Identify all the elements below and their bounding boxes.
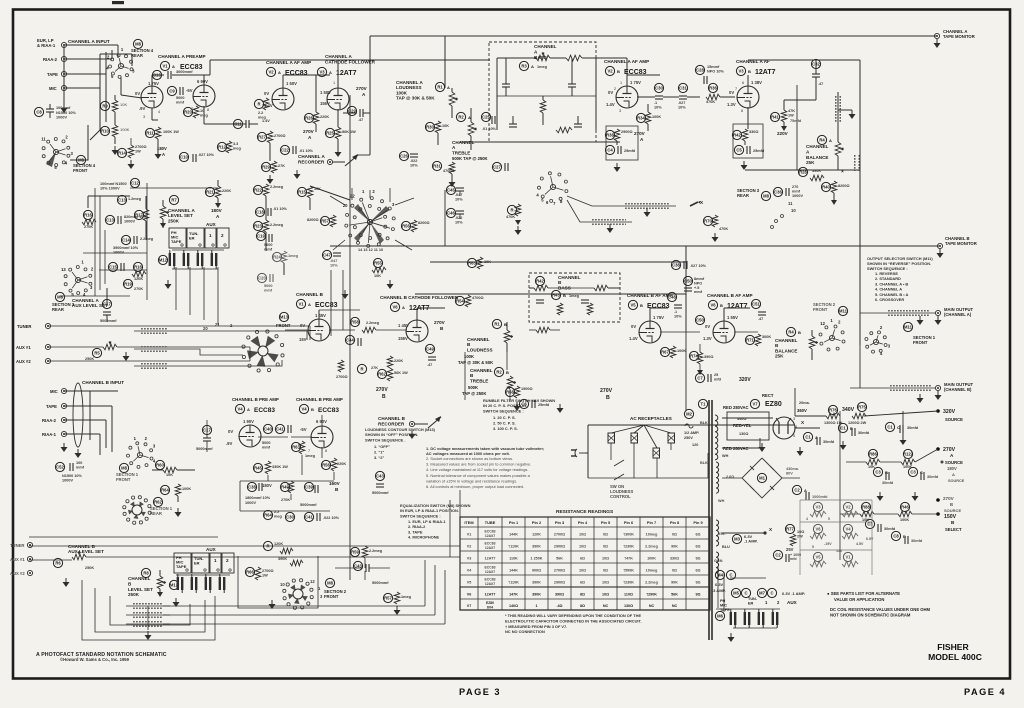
capacitor C8 xyxy=(34,107,43,116)
capacitor C19 xyxy=(256,231,265,240)
svg-text:C27: C27 xyxy=(493,165,501,170)
resistor bass1 xyxy=(566,55,582,61)
svg-text:390K: 390K xyxy=(278,557,287,561)
svg-text:mmf: mmf xyxy=(694,290,703,294)
svg-text:1.3V: 1.3V xyxy=(727,102,736,107)
svg-text:R: R xyxy=(257,102,260,107)
svg-text:10K: 10K xyxy=(442,124,449,128)
svg-text:M2: M2 xyxy=(686,412,692,417)
tube ref V1A xyxy=(160,61,169,70)
ref M6 xyxy=(715,611,724,620)
wire nested rects xyxy=(82,580,215,640)
svg-text:2. 50 C. P. S.: 2. 50 C. P. S. xyxy=(493,420,516,425)
svg-text:10%: 10% xyxy=(678,105,686,109)
svg-text:MIC: MIC xyxy=(49,86,57,91)
svg-text:1: 1 xyxy=(333,81,335,85)
svg-text:15V: 15V xyxy=(299,337,307,342)
svg-text:3: 3 xyxy=(619,109,621,113)
svg-text:120K: 120K xyxy=(134,277,143,281)
svg-text:NC NO CONNECTION: NC NO CONNECTION xyxy=(505,629,545,634)
svg-text:ECC83: ECC83 xyxy=(254,407,275,414)
svg-text:5000mmf: 5000mmf xyxy=(372,491,389,495)
capacitor C17 xyxy=(102,299,111,308)
wire bass box xyxy=(497,57,536,59)
capacitor C52 xyxy=(55,462,64,471)
svg-text:30mfd: 30mfd xyxy=(882,481,894,485)
ground r40 xyxy=(833,193,835,200)
resistor R42 xyxy=(732,130,741,139)
jack transformer q15 2 xyxy=(744,612,746,625)
svg-text:CHANNEL A PREAMP: CHANNEL A PREAMP xyxy=(158,54,206,59)
svg-text:R6: R6 xyxy=(55,561,61,566)
svg-text:10K: 10K xyxy=(120,102,127,107)
wire jack drops xyxy=(175,267,177,310)
resistor R68 xyxy=(505,387,514,396)
svg-text:A: A xyxy=(172,64,175,69)
svg-text:8: 8 xyxy=(325,449,327,453)
svg-text:R10: R10 xyxy=(101,129,109,134)
svg-text:220K: 220K xyxy=(337,462,346,466)
svg-text:ER: ER xyxy=(194,561,200,566)
resistor R17 xyxy=(134,210,143,219)
capacitor C13 xyxy=(117,195,126,204)
svg-text:100K: 100K xyxy=(120,127,130,132)
svg-text:270K: 270K xyxy=(281,498,290,502)
resistor R75 xyxy=(857,402,866,411)
svg-text:(CHANNEL B): (CHANNEL B) xyxy=(944,387,972,392)
svg-text:R4: R4 xyxy=(819,138,825,143)
wire v2 chain xyxy=(282,75,284,89)
ref M8 s3 xyxy=(55,292,64,301)
ref V5B xyxy=(628,300,637,309)
svg-text:ECC83: ECC83 xyxy=(285,70,308,77)
svg-text:1: 1 xyxy=(620,81,622,85)
svg-text:270K: 270K xyxy=(84,225,93,229)
jack transformer q15 1 xyxy=(730,612,732,625)
svg-text:-19V: -19V xyxy=(824,542,832,546)
jack tape B xyxy=(61,403,66,408)
svg-text:2.2meg: 2.2meg xyxy=(270,223,284,227)
ref M8 rear xyxy=(133,39,142,48)
svg-text:ECC83: ECC83 xyxy=(318,407,339,414)
svg-text:R21: R21 xyxy=(206,190,214,195)
svg-text:M8: M8 xyxy=(135,42,141,47)
svg-text:10: 10 xyxy=(280,582,285,587)
resistor R24 xyxy=(272,252,281,261)
svg-text:R20: R20 xyxy=(184,110,192,115)
svg-text:& RIAA-1: & RIAA-1 xyxy=(37,43,56,48)
svg-text:155V: 155V xyxy=(320,101,330,106)
svg-text:2900Ω: 2900Ω xyxy=(554,544,565,548)
ref M3 xyxy=(732,534,741,543)
wire left cluster box xyxy=(95,188,130,296)
wire q10 bus xyxy=(240,480,334,482)
resistor R10 xyxy=(100,126,109,135)
capacitor C40 xyxy=(263,424,272,433)
svg-text:C12: C12 xyxy=(131,181,139,186)
svg-text:SWITCH SEQUENCE .: SWITCH SEQUENCE . xyxy=(365,437,405,442)
svg-text:1000V: 1000V xyxy=(124,219,135,223)
jack riaa1 B xyxy=(61,431,66,436)
jack aux1 B xyxy=(27,556,32,561)
svg-text:R27: R27 xyxy=(258,135,266,140)
svg-text:CONTROL: CONTROL xyxy=(610,494,631,499)
svg-text:R29: R29 xyxy=(262,165,270,170)
svg-text:1 50V: 1 50V xyxy=(320,90,331,95)
svg-text:100mmf N1500: 100mmf N1500 xyxy=(100,182,127,186)
svg-text:R: R xyxy=(266,544,269,549)
svg-text:V4: V4 xyxy=(237,407,243,412)
svg-text:A: A xyxy=(952,472,955,477)
resistor R29 xyxy=(261,162,270,171)
capacitor C1B xyxy=(838,423,847,432)
svg-text:R57: R57 xyxy=(321,219,329,224)
svg-text:©Howard W. Sams & Co., Inc. 19: ©Howard W. Sams & Co., Inc. 1959 xyxy=(60,657,130,662)
svg-text:V2: V2 xyxy=(467,544,472,548)
resistor R12 xyxy=(217,142,226,151)
ref R62 xyxy=(153,497,162,506)
svg-text:1.4V: 1.4V xyxy=(262,119,270,123)
svg-text:TAPE MONITOR: TAPE MONITOR xyxy=(945,241,977,246)
tube V6 triode B xyxy=(713,321,735,343)
resistor R38 xyxy=(605,130,614,139)
svg-text:AUX LEVEL SET: AUX LEVEL SET xyxy=(72,303,108,308)
resistor R57 xyxy=(320,216,329,225)
svg-text:1 45V: 1 45V xyxy=(398,323,409,328)
svg-text:R42: R42 xyxy=(733,133,741,138)
svg-text:6. CROSSOVER: 6. CROSSOVER xyxy=(875,297,904,302)
svg-text:56K: 56K xyxy=(671,592,678,596)
resistor R41 xyxy=(770,112,779,121)
rotary M13 wedge xyxy=(258,346,268,356)
ref M4 heater xyxy=(715,570,724,579)
ref R3A xyxy=(519,61,528,70)
switch on loudness xyxy=(614,460,624,466)
capacitor C26 xyxy=(399,151,408,160)
box channel A bass xyxy=(489,42,596,142)
svg-text:M1: M1 xyxy=(759,476,765,481)
svg-text:100: 100 xyxy=(76,461,82,465)
svg-text:R56: R56 xyxy=(322,463,330,468)
svg-text:5. Nominal tolerance of comp: 5. Nominal tolerance of component values… xyxy=(426,473,531,478)
svg-text:FRONT: FRONT xyxy=(324,594,339,599)
svg-text:R7: R7 xyxy=(171,198,177,203)
resistor R56b xyxy=(321,460,330,469)
svg-text:ELECTROLYTIC CAPACITOR CONNECT: ELECTROLYTIC CAPACITOR CONNECTED IN THE … xyxy=(505,618,642,623)
wire jack row xyxy=(172,249,224,251)
svg-text:130Ω: 130Ω xyxy=(739,432,748,436)
resistor R45 xyxy=(253,463,262,472)
svg-text:330Ω: 330Ω xyxy=(670,556,679,560)
svg-text:5000mmf: 5000mmf xyxy=(300,503,317,507)
svg-text:0V: 0V xyxy=(264,91,269,96)
svg-text:SOURCE: SOURCE xyxy=(948,479,965,483)
rotary M8 section 3 rear xyxy=(75,277,80,282)
svg-text:V7: V7 xyxy=(467,604,472,608)
svg-text:320V: 320V xyxy=(943,409,956,415)
T1 secondary coil 1 xyxy=(716,462,719,493)
svg-text:R64: R64 xyxy=(161,488,169,493)
svg-text:†110K: †110K xyxy=(508,580,519,584)
svg-text:1W: 1W xyxy=(262,573,268,577)
tube V4 triode A xyxy=(239,425,261,447)
ref M7 xyxy=(757,588,766,597)
heater resistor V3 xyxy=(813,502,822,511)
ref R6 xyxy=(53,558,62,567)
svg-text:1800mmf 10%: 1800mmf 10% xyxy=(245,496,271,500)
ref R7 xyxy=(169,195,178,204)
svg-text:470K: 470K xyxy=(506,215,515,219)
resistor R57b xyxy=(383,593,392,602)
svg-text:9Ω: 9Ω xyxy=(695,592,700,596)
svg-text:2.2meg: 2.2meg xyxy=(270,185,284,189)
svg-text:2: 2 xyxy=(614,87,616,91)
capacitor C29 xyxy=(347,106,356,115)
wire plate V1 xyxy=(151,75,153,88)
svg-text:R1: R1 xyxy=(494,322,500,327)
ref V7 xyxy=(750,399,759,408)
wire plug xyxy=(585,452,588,454)
svg-text:1 90V: 1 90V xyxy=(243,419,254,424)
ground red-yel xyxy=(761,443,763,447)
svg-text:6. All controls at minimum,: 6. All controls at minimum, proper outpu… xyxy=(426,484,524,489)
svg-text:0V: 0V xyxy=(631,324,636,329)
svg-text:V6: V6 xyxy=(815,527,821,532)
wire 270b xyxy=(840,513,860,515)
jack transformer q15 3 xyxy=(758,612,760,625)
svg-text:1 45V: 1 45V xyxy=(315,313,326,318)
capacitor C3B xyxy=(873,467,882,476)
svg-text:BLK: BLK xyxy=(700,461,708,465)
svg-text:56K: 56K xyxy=(556,556,563,560)
svg-text:TUNER: TUNER xyxy=(10,543,24,548)
jack aux2 B xyxy=(27,570,32,575)
svg-text:C40: C40 xyxy=(264,427,272,432)
svg-text:1 75V: 1 75V xyxy=(148,81,159,86)
svg-text:mfd: mfd xyxy=(790,557,797,561)
svg-text:330K 1W: 330K 1W xyxy=(272,465,288,469)
rotary loudness M13 big xyxy=(367,219,372,224)
svg-text:10: 10 xyxy=(791,208,796,213)
svg-text:6 90V: 6 90V xyxy=(197,79,208,84)
pot treble A xyxy=(468,122,474,136)
ref V6A xyxy=(390,302,399,311)
svg-text:270V: 270V xyxy=(600,388,613,394)
svg-text:R2: R2 xyxy=(496,370,502,375)
tube V4 triode B xyxy=(311,426,333,448)
svg-text:5000mmf: 5000mmf xyxy=(196,447,213,451)
capacitor bass2 xyxy=(568,83,576,85)
svg-text:SOURCE: SOURCE xyxy=(945,460,963,465)
svg-text:180V: 180V xyxy=(211,208,223,213)
fuse F1 xyxy=(685,424,693,428)
svg-text:220K: 220K xyxy=(222,189,231,193)
svg-text:1: 1 xyxy=(209,233,212,238)
rotary M11 s1 front 2 xyxy=(873,339,878,344)
svg-text:0V: 0V xyxy=(705,324,710,329)
capacitor C38 xyxy=(671,260,680,269)
svg-text:R28: R28 xyxy=(799,170,807,175)
svg-text:CHANNEL: CHANNEL xyxy=(470,368,493,373)
svg-text:5000: 5000 xyxy=(176,96,184,100)
svg-text:1meg: 1meg xyxy=(288,254,299,258)
svg-text:TAPE: TAPE xyxy=(46,404,57,409)
svg-text:R71: R71 xyxy=(746,338,754,343)
svg-text:1. “OFF”: 1. “OFF” xyxy=(374,444,390,449)
svg-text:3: 3 xyxy=(793,417,795,421)
svg-text:12AT7: 12AT7 xyxy=(755,69,776,76)
svg-text:C52: C52 xyxy=(56,465,64,470)
svg-text:.1: .1 xyxy=(674,310,677,314)
svg-text:R40: R40 xyxy=(822,185,830,190)
transformer T1 core xyxy=(708,400,710,640)
wire rumble riser xyxy=(464,352,466,400)
ref R43B xyxy=(551,290,560,299)
svg-text:10%: 10% xyxy=(654,105,662,109)
svg-text:T1: T1 xyxy=(701,402,707,407)
svg-text:.9V: .9V xyxy=(139,106,145,111)
capacitor C2A xyxy=(792,485,801,494)
svg-text:90K: 90K xyxy=(671,544,678,548)
pot level set B xyxy=(157,576,163,589)
svg-text:100mmf: 100mmf xyxy=(56,106,71,110)
wire heater row xyxy=(716,608,780,610)
pot balance B xyxy=(809,336,815,349)
capacitor C43 xyxy=(353,561,362,570)
svg-text:V6: V6 xyxy=(392,305,398,310)
wire treble B riser xyxy=(506,352,508,370)
svg-text:R41: R41 xyxy=(771,115,779,120)
svg-text:6.3V: 6.3V xyxy=(715,582,724,587)
tube V6 triode A xyxy=(406,320,428,342)
wire 270a xyxy=(846,461,866,463)
svg-text:1900Ω: 1900Ω xyxy=(521,387,533,391)
svg-text:500K: 500K xyxy=(468,385,478,390)
svg-text:FRONT: FRONT xyxy=(276,323,291,328)
svg-text:100K: 100K xyxy=(652,115,661,119)
svg-text:PAGE 4: PAGE 4 xyxy=(964,687,1006,697)
resistor R60 xyxy=(155,460,164,469)
svg-text:NC: NC xyxy=(603,604,609,608)
svg-text:1000V: 1000V xyxy=(56,116,67,120)
ref V2A xyxy=(266,67,275,76)
svg-text:MODEL 400C: MODEL 400C xyxy=(928,652,982,662)
svg-text:†47K: †47K xyxy=(624,556,633,560)
svg-text:NPO 10%: NPO 10% xyxy=(707,69,725,73)
ref M12 xyxy=(158,255,167,264)
svg-text:A: A xyxy=(329,70,332,75)
resistor 220K q6 xyxy=(387,356,393,368)
svg-text:A: A xyxy=(278,70,281,75)
svg-text:30mfd: 30mfd xyxy=(884,527,896,531)
svg-text:CHANNEL A: CHANNEL A xyxy=(325,54,352,59)
rotary switch M8 section 4 front xyxy=(53,149,58,154)
wire cathode chain xyxy=(114,95,116,100)
svg-text:Pin 3: Pin 3 xyxy=(555,520,565,525)
svg-text:V7: V7 xyxy=(752,402,758,407)
svg-text:R74: R74 xyxy=(690,354,698,359)
box r38c4 xyxy=(606,126,638,160)
wire rotary feeds xyxy=(369,190,371,198)
svg-text:R88: R88 xyxy=(862,505,870,510)
svg-text:C2: C2 xyxy=(775,553,781,558)
svg-text:BLK: BLK xyxy=(700,421,708,425)
wire b input bus xyxy=(64,390,118,392)
svg-text:.47: .47 xyxy=(427,363,432,367)
tube V3 triode B xyxy=(737,86,759,108)
svg-text:R14: R14 xyxy=(118,151,126,156)
wire t1 heater feeds xyxy=(717,566,719,608)
ground jacks A xyxy=(167,280,169,284)
svg-text:1 250K: 1 250K xyxy=(531,556,543,560)
svg-text:10Ω: 10Ω xyxy=(797,530,804,534)
resistor R58 xyxy=(350,317,359,326)
wire q10 tubes xyxy=(258,436,288,438)
svg-text:10Ω: 10Ω xyxy=(579,532,586,536)
svg-text:PH: PH xyxy=(720,599,726,603)
resistor R28 xyxy=(798,167,807,176)
svg-text:100K: 100K xyxy=(677,349,686,353)
wire long vertical 686 xyxy=(685,330,687,410)
svg-text:R59: R59 xyxy=(351,550,359,555)
svg-text:320V: 320V xyxy=(739,377,751,383)
wire v1 cathode xyxy=(151,108,153,120)
diode arrow x xyxy=(690,202,698,206)
jack 270V B source xyxy=(936,498,940,502)
resistor R22 xyxy=(253,185,262,194)
ref M8 front xyxy=(76,155,85,164)
svg-text:†230K: †230K xyxy=(623,580,634,584)
resistor R30 xyxy=(425,122,434,131)
resistor R34 xyxy=(636,113,645,122)
svg-text:V3: V3 xyxy=(319,70,325,75)
capacitor C50 xyxy=(683,276,692,285)
wire q7 links xyxy=(567,196,618,206)
capacitor C36 xyxy=(773,187,782,196)
svg-text:CHANNEL A: CHANNEL A xyxy=(298,154,325,159)
svg-text:0Ω: 0Ω xyxy=(603,568,608,572)
svg-text:12AX7: 12AX7 xyxy=(485,546,495,550)
svg-text:9Ω: 9Ω xyxy=(695,580,700,584)
receptacle 4 xyxy=(653,448,660,458)
tube V5 triode B xyxy=(639,321,661,343)
svg-text:R75: R75 xyxy=(858,405,866,410)
scan mark top xyxy=(112,1,124,4)
wire aux bus B xyxy=(29,536,218,538)
svg-text:12: 12 xyxy=(310,579,315,584)
svg-text:4. MICROPHONE: 4. MICROPHONE xyxy=(408,535,440,540)
heater resistor V4 xyxy=(843,524,852,533)
svg-text:11: 11 xyxy=(41,137,46,142)
svg-text:1.4V: 1.4V xyxy=(629,336,638,341)
svg-text:RIAA-1: RIAA-1 xyxy=(42,432,57,437)
jack RIAA-2 xyxy=(61,56,66,61)
svg-text:RESISTANCE READINGS: RESISTANCE READINGS xyxy=(556,509,614,515)
ref V4A q9 xyxy=(235,404,244,413)
svg-text:20ma.: 20ma. xyxy=(799,401,810,405)
jack 150V B source xyxy=(936,512,940,516)
svg-text:V4: V4 xyxy=(301,407,307,412)
tube V1 triode A xyxy=(141,86,163,108)
capacitor C46 xyxy=(446,208,455,217)
svg-text:1 75V: 1 75V xyxy=(630,80,641,85)
svg-text:160V: 160V xyxy=(329,481,341,486)
svg-text:300K: 300K xyxy=(762,335,771,339)
svg-text:390Ω: 390Ω xyxy=(555,592,564,596)
svg-text:2700Ω: 2700Ω xyxy=(336,375,348,379)
svg-text:12AT7: 12AT7 xyxy=(727,303,748,310)
jack recorder B xyxy=(409,421,414,426)
